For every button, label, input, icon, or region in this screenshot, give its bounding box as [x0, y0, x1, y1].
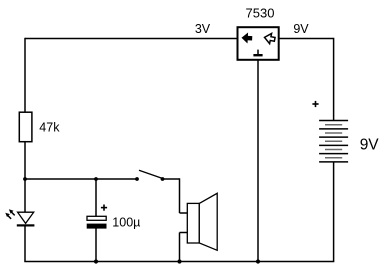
battery BT1 plates	[319, 121, 348, 162]
regulator outline arrow	[264, 32, 276, 44]
wire left vertical middle (resistor to LED)	[24, 142, 26, 213]
wire right vertical battery top lead	[333, 38, 335, 121]
op-amp regulator U1 box 7530	[238, 27, 279, 60]
switch S1 lever	[139, 170, 163, 178]
wire bottom horizontal rail	[24, 261, 334, 263]
node junction speaker bottom	[177, 259, 181, 263]
wire regulator ground lead	[257, 60, 259, 262]
LED D1 triangle	[18, 212, 34, 223]
wire middle horizontal (junction to switch)	[25, 178, 137, 180]
battery BT1 plus sign	[312, 101, 318, 107]
node junction left wire / middle wire	[23, 177, 27, 181]
node junction capacitor bottom	[94, 259, 98, 263]
svg-text:3V: 3V	[195, 22, 211, 36]
svg-text:47k: 47k	[39, 121, 60, 135]
wire top-right horizontal 9V rail	[279, 38, 334, 40]
capacitor C1 plus sign	[101, 205, 107, 211]
wire speaker bottom stub	[180, 232, 188, 234]
svg-text:7530: 7530	[246, 6, 275, 21]
wire capacitor bottom lead	[95, 229, 97, 262]
wire speaker top stub	[180, 212, 188, 214]
regulator filled arrow	[241, 32, 252, 44]
resistor R 47k body	[19, 112, 32, 142]
speaker LS1 cone	[199, 193, 217, 250]
capacitor C1 top plate	[87, 216, 106, 220]
wire right vertical battery bottom lead	[333, 162, 335, 262]
LED D1 emission arrow 1	[5, 213, 11, 219]
LED D1 emission arrow 2	[9, 209, 15, 215]
node junction capacitor top	[94, 177, 98, 181]
LED D1 cathode bar	[17, 224, 35, 226]
svg-text:100µ: 100µ	[112, 216, 140, 230]
wire speaker top lead vertical	[179, 178, 181, 213]
switch S1 right contact	[161, 177, 165, 181]
switch S1 left contact	[135, 177, 139, 181]
wire capacitor top lead	[95, 179, 97, 216]
wire top-left horizontal 3V rail	[25, 38, 238, 40]
wire switch to corner	[163, 178, 180, 180]
wire left vertical upper (to resistor)	[24, 38, 26, 113]
wire left vertical lower (LED to bottom rail)	[24, 226, 26, 262]
svg-text:9V: 9V	[293, 22, 309, 36]
speaker LS1 driver body	[187, 203, 199, 243]
regulator ground symbol	[257, 50, 259, 55]
capacitor C1 bottom plate	[87, 224, 107, 229]
svg-text:9V: 9V	[360, 136, 380, 153]
node junction regulator ground bottom	[256, 259, 260, 263]
wire speaker bottom lead vertical	[179, 233, 181, 262]
